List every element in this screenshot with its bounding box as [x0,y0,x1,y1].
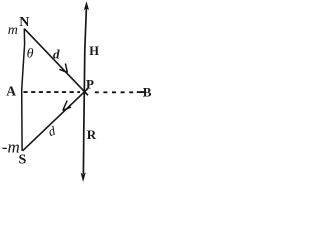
svg-text:H: H [89,44,99,58]
wire: line P to S (distance d) [23,88,88,150]
wire: line N to P (distance d) [24,29,88,96]
svg-text:B: B [143,85,152,100]
arrowhead bottom (downward) [81,172,86,182]
svg-text:-m: -m [2,137,20,156]
svg-text:N: N [19,15,29,30]
dashed line A to P [23,91,80,93]
svg-text:A: A [6,84,16,99]
background paper [0,0,157,186]
svg-text:θ: θ [27,47,34,62]
wire: magnet axis line N-S [22,29,25,151]
svg-text:P: P [86,76,94,91]
long dash before B [137,91,145,93]
svg-text:d: d [53,47,60,62]
arrowhead top (upward) [84,1,89,10]
dashed line P to B [95,91,135,93]
arrowhead on PS line pointing to S [63,101,71,111]
wire: vertical resultant line through P [83,5,86,174]
arrowhead on NP line pointing to P [59,64,67,73]
svg-text:m: m [8,23,18,38]
svg-text:S: S [19,153,27,168]
svg-text:R: R [87,127,97,142]
